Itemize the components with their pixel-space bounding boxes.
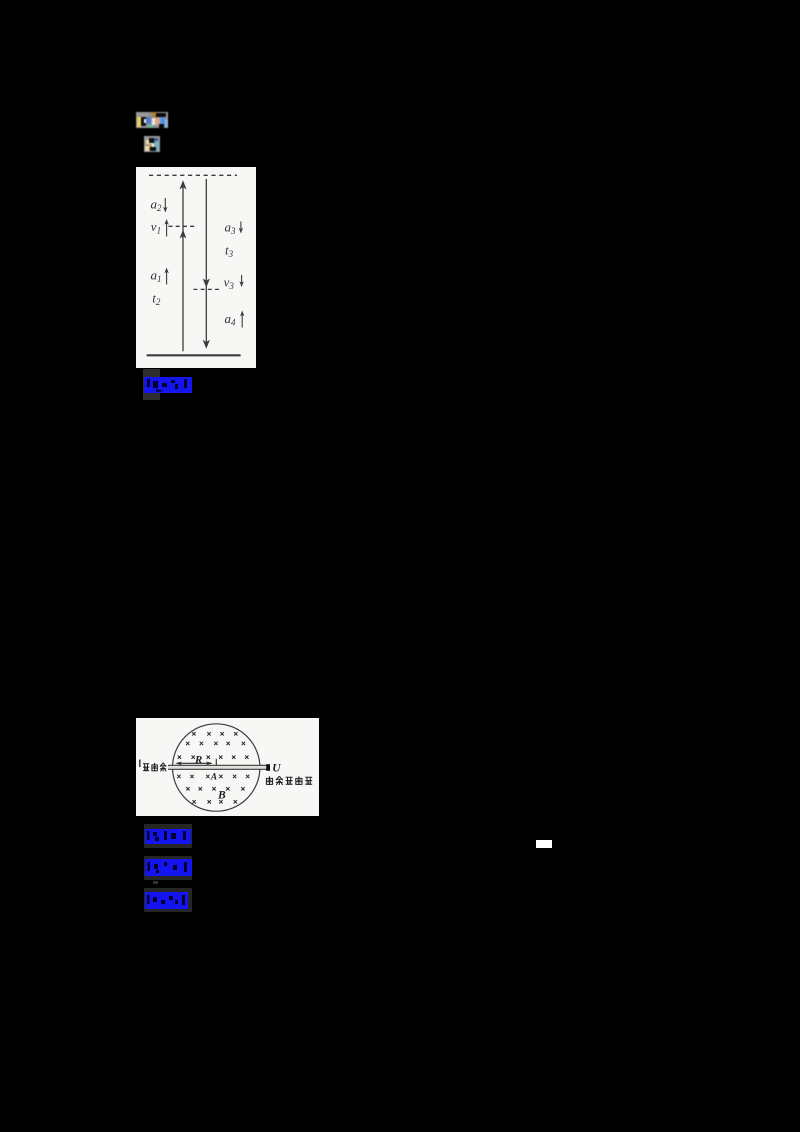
svg-text:a3: a3 [225,220,237,237]
svg-text:B: B [217,789,226,801]
svg-text:t2: t2 [152,290,161,307]
svg-text:a4: a4 [225,311,237,328]
svg-text:v1: v1 [151,219,161,236]
svg-text:v3: v3 [224,274,235,291]
svg-text:t3: t3 [225,242,234,258]
svg-text:R: R [194,754,202,766]
svg-text:A: A [210,772,217,782]
svg-text:a2: a2 [151,197,163,214]
svg-text:a1: a1 [151,268,162,285]
svg-text:U: U [272,763,281,775]
